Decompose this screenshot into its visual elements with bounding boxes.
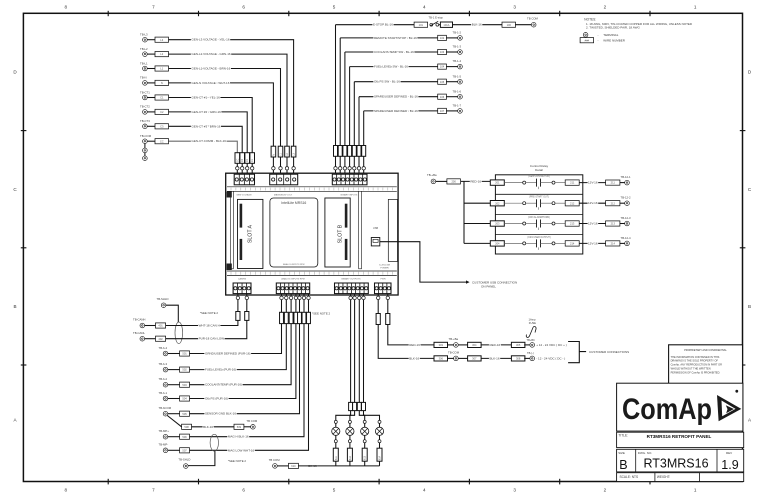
wire binary output 1 bbox=[350, 300, 352, 403]
svg-text:(CR4 USER OUTPUT): (CR4 USER OUTPUT) bbox=[527, 237, 550, 239]
wire lamp to common bus bbox=[335, 461, 337, 466]
wire number box above controller C3 bbox=[240, 153, 245, 164]
svg-text:3: 3 bbox=[513, 5, 516, 10]
terminal TB-1-2 bbox=[446, 37, 457, 39]
svg-text:B: B bbox=[619, 458, 627, 472]
wire CAN H bbox=[145, 325, 156, 327]
svg-text:12V-16: 12V-16 bbox=[588, 181, 598, 185]
svg-text:3: 3 bbox=[513, 488, 516, 493]
terminal TB-+Bat bbox=[431, 179, 436, 184]
svg-text:TB-1-5: TB-1-5 bbox=[453, 74, 462, 78]
wire number 503 bbox=[180, 382, 190, 387]
terminal TB-bCOM bbox=[163, 411, 168, 416]
svg-text:TERMINAL: TERMINAL bbox=[603, 33, 619, 37]
svg-text:107: 107 bbox=[440, 109, 445, 113]
svg-text:MAINS/BUS VOLT: MAINS/BUS VOLT bbox=[274, 193, 293, 196]
wire USB to customer connection bbox=[380, 242, 466, 282]
svg-text:DRAWING IS THE SOLE PROPERTY O: DRAWING IS THE SOLE PROPERTY OF bbox=[671, 359, 719, 363]
svg-text:12V-16: 12V-16 bbox=[588, 201, 598, 205]
wire TB-b-3 bbox=[168, 369, 180, 371]
terminal TB COM bottom bbox=[277, 465, 288, 467]
svg-text:GEN-CT #2 - GRN-16: GEN-CT #2 - GRN-16 bbox=[192, 110, 222, 114]
terminal TB-b-4 bbox=[163, 351, 168, 356]
wire number C3 bbox=[155, 124, 169, 129]
svg-text:SCALE: NTS: SCALE: NTS bbox=[620, 475, 639, 479]
shield ellipse CAN bbox=[175, 322, 183, 344]
terminal TB-SHLD bbox=[161, 303, 166, 308]
svg-text:GEN-CT COMM - BLK-16: GEN-CT COMM - BLK-16 bbox=[192, 139, 227, 143]
slot A card bbox=[238, 199, 263, 268]
terminal TB-1-5 bbox=[446, 81, 457, 83]
terminal into controller bbox=[362, 167, 365, 170]
svg-text:TB+BC: TB+BC bbox=[527, 338, 536, 342]
svg-text:203: 203 bbox=[495, 222, 500, 226]
terminal into controller bbox=[302, 296, 305, 299]
svg-text:SENSOR GND BLK-16: SENSOR GND BLK-16 bbox=[205, 412, 236, 416]
wire lamp to common bus bbox=[379, 461, 381, 466]
wire number box above controller 102 bbox=[338, 146, 342, 157]
wire binary output 2 bbox=[354, 300, 356, 403]
svg-text:101A: 101A bbox=[443, 23, 449, 27]
controller bottom terminal strip group3 bbox=[335, 283, 369, 294]
svg-text:TB-1-4: TB-1-4 bbox=[453, 59, 462, 63]
wire number 104 bbox=[438, 64, 447, 69]
svg-text:TB COM: TB COM bbox=[246, 419, 258, 423]
terminal into controller bbox=[334, 167, 337, 170]
controller bottom terminal strip group2 bbox=[276, 283, 309, 294]
svg-text:GEN-CT #1 - YEL-16: GEN-CT #1 - YEL-16 bbox=[192, 96, 221, 100]
wire number box 506 vertical bbox=[302, 312, 306, 323]
svg-text:THE INFORMATION CONTAINED IN T: THE INFORMATION CONTAINED IN THIS bbox=[671, 355, 720, 359]
svg-text:FUSE: FUSE bbox=[529, 321, 536, 325]
wire number box 302 bbox=[376, 314, 380, 325]
svg-text:1: 1 bbox=[694, 5, 697, 10]
svg-text:5: 5 bbox=[333, 488, 336, 493]
wire number box above controller N bbox=[271, 146, 276, 157]
svg-text:TB COM: TB COM bbox=[269, 458, 281, 462]
svg-text:1: 1 bbox=[694, 488, 697, 493]
terminal TB-CANH bbox=[140, 323, 145, 328]
svg-text:214: 214 bbox=[570, 242, 575, 246]
terminal TB-1-4 bbox=[446, 66, 457, 68]
svg-text:PERMISSION OF ComAp IS PROHIBI: PERMISSION OF ComAp IS PROHIBITED. bbox=[671, 370, 721, 374]
svg-text:SPARE/USER DEFINED - BL-16: SPARE/USER DEFINED - BL-16 bbox=[374, 109, 418, 113]
wire to TB COM bbox=[453, 24, 503, 26]
svg-text:5: 5 bbox=[333, 5, 336, 10]
terminal below controller bbox=[353, 296, 356, 299]
wire number 107 bbox=[438, 108, 447, 113]
wire number L3 bbox=[155, 37, 169, 42]
wire number 103 bbox=[438, 49, 447, 54]
svg-text:-: - bbox=[598, 38, 599, 42]
svg-text:POWER: POWER bbox=[380, 268, 389, 270]
wire negative row bbox=[409, 357, 434, 359]
svg-text:214: 214 bbox=[611, 242, 616, 246]
svg-text:305: 305 bbox=[516, 343, 521, 347]
terminal TB-1-3 bbox=[446, 51, 457, 53]
svg-text:TB-1 E-stop: TB-1 E-stop bbox=[429, 16, 444, 20]
svg-text:8: 8 bbox=[65, 488, 68, 493]
ground chain terminals below TB-COM bbox=[144, 144, 146, 157]
svg-text:BLK-16: BLK-16 bbox=[490, 356, 500, 360]
svg-text:FUEL LEVEL SW - BL-16: FUEL LEVEL SW - BL-16 bbox=[374, 65, 408, 69]
terminal TB-L1 bbox=[143, 66, 148, 71]
terminal into controller for TB-L3 bbox=[292, 167, 295, 170]
wire number 509 bbox=[234, 424, 244, 429]
wire TB-b-4 bbox=[168, 353, 180, 355]
wire number 211A bbox=[606, 180, 620, 185]
svg-text:2. TWISTED, SHIELDED PAIR, 18: 2. TWISTED, SHIELDED PAIR, 18 AWG bbox=[586, 26, 640, 30]
wire TB-b-2 bbox=[168, 384, 180, 386]
ComAp logo box bbox=[617, 383, 743, 431]
svg-text:200: 200 bbox=[451, 180, 456, 184]
wire number 101 bbox=[414, 22, 428, 27]
wire number box lamp 1 bbox=[333, 448, 338, 461]
terminal DC- customer bbox=[524, 357, 530, 359]
terminal into controller bbox=[289, 296, 292, 299]
wire number box 602 bbox=[353, 402, 357, 410]
svg-text:TB-1-2: TB-1-2 bbox=[453, 31, 462, 35]
wire number box 604 bbox=[362, 402, 366, 410]
wire TB-COM to controller bbox=[147, 140, 155, 142]
E-stop switch TB-1 bbox=[429, 16, 444, 27]
wire TB-+Bat to relay box bbox=[436, 180, 447, 182]
wire number 213A bbox=[606, 221, 620, 226]
terminal TB-b-2 bbox=[163, 382, 168, 387]
wire number CC bbox=[155, 139, 169, 144]
svg-text:505: 505 bbox=[182, 412, 187, 416]
terminal TB-MP+ bbox=[163, 434, 168, 439]
svg-text:TB-CT3: TB-CT3 bbox=[140, 119, 150, 123]
relay CR3 bbox=[490, 221, 504, 226]
wire number box 503 vertical bbox=[289, 312, 293, 323]
terminal TB-N bbox=[143, 81, 148, 86]
svg-text:OIL PS SW - BL-16: OIL PS SW - BL-16 bbox=[374, 80, 400, 84]
svg-text:611: 611 bbox=[335, 456, 338, 460]
terminal TB-12-1 bbox=[620, 182, 625, 184]
svg-text:213: 213 bbox=[570, 222, 575, 226]
controller outline U1 bbox=[226, 173, 398, 295]
terminal TB-CT2 bbox=[143, 110, 148, 115]
wire CAN L bbox=[145, 338, 156, 340]
svg-text:508: 508 bbox=[184, 425, 189, 429]
wire number box above controller 107 bbox=[362, 146, 366, 157]
wire number C2 bbox=[155, 109, 169, 114]
terminal TB-CT3 bbox=[143, 124, 148, 129]
terminal into controller for TB-CT2 bbox=[246, 167, 249, 170]
svg-text:GRND/USER DEFINED (PUR-16): GRND/USER DEFINED (PUR-16) bbox=[205, 352, 251, 356]
svg-text:BLK-16: BLK-16 bbox=[409, 356, 419, 360]
terminal into controller bbox=[348, 167, 351, 170]
wire number box 603 bbox=[357, 402, 361, 410]
wire relay CR2 output bbox=[579, 202, 605, 204]
svg-text:*SEE NOTE 2: *SEE NOTE 2 bbox=[200, 311, 219, 315]
svg-text:ANALOG INPUTS RPM: ANALOG INPUTS RPM bbox=[281, 278, 304, 281]
svg-text:SIZE: SIZE bbox=[618, 451, 625, 455]
terminal TB-1-6 bbox=[446, 96, 457, 98]
wire TB-L2 to controller bbox=[147, 53, 155, 55]
terminal TB-12-4 bbox=[620, 242, 625, 244]
svg-text:BLK-16: BLK-16 bbox=[472, 23, 482, 27]
wire number 212A bbox=[606, 201, 620, 206]
wire relay CR4 output bbox=[579, 242, 605, 244]
svg-text:TB-+Ba: TB-+Ba bbox=[427, 173, 437, 177]
wire number box 402 vertical bbox=[245, 312, 249, 321]
svg-text:307: 307 bbox=[472, 357, 477, 361]
wire number box above controller 104 bbox=[348, 146, 352, 157]
svg-text:ANALOG INPUTS RPM: ANALOG INPUTS RPM bbox=[283, 263, 305, 266]
svg-text:2: 2 bbox=[604, 488, 607, 493]
svg-text:TB-COM: TB-COM bbox=[448, 351, 460, 355]
svg-text:BINARY INPUTS: BINARY INPUTS bbox=[341, 193, 358, 196]
right module area bbox=[388, 199, 397, 261]
wire lamp to common bus bbox=[349, 461, 351, 466]
wire number box 601 bbox=[349, 402, 353, 410]
svg-text:201: 201 bbox=[495, 181, 500, 185]
svg-text:N: N bbox=[161, 81, 163, 85]
svg-text:B: B bbox=[13, 304, 16, 309]
legend wire number symbol bbox=[580, 38, 594, 43]
wire number box lamp 4 bbox=[377, 448, 382, 461]
wire number box 401 vertical bbox=[236, 312, 240, 321]
terminal TB-L3 bbox=[143, 37, 148, 42]
DIN tab lower bbox=[227, 264, 232, 271]
svg-text:WIRE NUMBER: WIRE NUMBER bbox=[603, 38, 626, 42]
terminal TB-12-3 bbox=[620, 223, 625, 225]
svg-text:212: 212 bbox=[570, 201, 575, 205]
terminal below controller bbox=[362, 296, 365, 299]
svg-text:ON PANEL: ON PANEL bbox=[481, 284, 496, 288]
svg-text:RED-16: RED-16 bbox=[470, 179, 481, 183]
terminal into controller for TB-L2 bbox=[285, 167, 288, 170]
wire binary input TB-1-2 bbox=[340, 37, 438, 39]
svg-text:###: ### bbox=[585, 38, 590, 42]
svg-text:8: 8 bbox=[65, 5, 68, 10]
svg-text:COOLANT TEMP (PUR-16): COOLANT TEMP (PUR-16) bbox=[205, 383, 242, 387]
wire number C1 bbox=[155, 95, 169, 100]
wire number box above controller 101 bbox=[334, 146, 338, 157]
terminal TB-L2 bbox=[143, 52, 148, 57]
wire TB-b-1 bbox=[168, 398, 180, 400]
svg-text:213: 213 bbox=[611, 222, 616, 226]
wire bbox=[272, 157, 274, 166]
svg-text:GEN-CT #3 - BRN-16: GEN-CT #3 - BRN-16 bbox=[192, 124, 221, 128]
wire power positive from controller bbox=[387, 294, 389, 297]
svg-text:PUR-18 CAN LOW: PUR-18 CAN LOW bbox=[199, 337, 225, 341]
wire number 200 bbox=[447, 179, 461, 184]
wire number box above controller L3 bbox=[291, 146, 296, 157]
lamp LP4 bbox=[378, 420, 381, 423]
svg-text:308: 308 bbox=[516, 357, 521, 361]
terminal TB COM mid bbox=[244, 426, 251, 428]
svg-text:GEN-L1 VOLTAGE - BRN-16: GEN-L1 VOLTAGE - BRN-16 bbox=[192, 67, 231, 71]
svg-text:6: 6 bbox=[242, 488, 245, 493]
wire TB-CT1 to controller bbox=[147, 97, 155, 99]
wire MAG shield drain bbox=[188, 451, 215, 466]
wire number box above controller L1 bbox=[278, 146, 283, 157]
svg-text:TB-CT2: TB-CT2 bbox=[140, 105, 150, 109]
wire number box above controller C1 bbox=[250, 153, 255, 164]
svg-text:DWG. NO.: DWG. NO. bbox=[638, 451, 652, 455]
svg-text:100: 100 bbox=[507, 23, 512, 27]
svg-text:RT3MRS16: RT3MRS16 bbox=[643, 457, 708, 471]
svg-text:RT3MRS16 RETROFIT PANEL: RT3MRS16 RETROFIT PANEL bbox=[647, 434, 712, 439]
svg-text:(CR3 ALARM/HORN): (CR3 ALARM/HORN) bbox=[528, 216, 550, 219]
svg-text:*SEE NOTE 2: *SEE NOTE 2 bbox=[228, 459, 247, 463]
wire number 402 bbox=[156, 336, 166, 341]
svg-text:GEN-L2 VOLTAGE - GRN-16: GEN-L2 VOLTAGE - GRN-16 bbox=[192, 52, 231, 56]
terminal into controller bbox=[339, 167, 342, 170]
svg-text:TB-12-2: TB-12-2 bbox=[621, 196, 632, 200]
terminal into controller bbox=[298, 296, 301, 299]
svg-text:TB-12-1: TB-12-1 bbox=[621, 175, 632, 179]
svg-text:-: - bbox=[598, 33, 599, 37]
legend terminal symbol bbox=[583, 33, 588, 38]
svg-text:502: 502 bbox=[182, 368, 187, 372]
wire TB-bCOM bbox=[168, 413, 180, 415]
svg-text:C1: C1 bbox=[160, 96, 164, 100]
svg-text:306: 306 bbox=[439, 357, 444, 361]
svg-text:TB-SHLD: TB-SHLD bbox=[178, 458, 190, 462]
svg-text:C1: C1 bbox=[251, 158, 254, 162]
wire TB-L3 to controller bbox=[147, 39, 155, 41]
wire number box above controller CC bbox=[235, 153, 240, 164]
controller top terminal strip group2 bbox=[270, 174, 298, 185]
wire number box 501 vertical bbox=[280, 312, 284, 323]
svg-text:PROPRIETARY AND CONFIDENTIAL: PROPRIETARY AND CONFIDENTIAL bbox=[684, 349, 727, 352]
wire bbox=[439, 24, 441, 26]
terminal CAN H into controller bbox=[237, 300, 239, 312]
svg-text:TB-MP+: TB-MP+ bbox=[159, 429, 170, 433]
svg-text:FUEL LEVEL (PUR-16): FUEL LEVEL (PUR-16) bbox=[205, 368, 236, 372]
svg-text:C2: C2 bbox=[160, 110, 164, 114]
svg-text:TB-b-2: TB-b-2 bbox=[159, 377, 168, 381]
terminal into controller bbox=[353, 167, 356, 170]
svg-text:PWR: PWR bbox=[380, 279, 386, 281]
svg-text:6: 6 bbox=[242, 5, 245, 10]
terminal TB-MP- bbox=[163, 448, 168, 453]
svg-text:TB-+Ba: TB-+Ba bbox=[449, 337, 459, 341]
svg-text:202: 202 bbox=[495, 201, 500, 205]
terminal into controller for TB-L1 bbox=[279, 167, 282, 170]
wire shield drain bbox=[166, 305, 178, 322]
terminal TB-COM power bbox=[448, 357, 454, 359]
wire TB-L1 to controller bbox=[147, 68, 155, 70]
wire number box 505 vertical bbox=[298, 312, 302, 323]
wire number N bbox=[155, 80, 169, 85]
svg-text:GEN-L3 VOLTAGE - YEL-16: GEN-L3 VOLTAGE - YEL-16 bbox=[192, 38, 230, 42]
svg-text:WEIGHT:: WEIGHT: bbox=[657, 475, 670, 479]
wire bbox=[236, 163, 238, 166]
svg-text:TB-(-): TB-(-) bbox=[527, 351, 534, 355]
ComAp logo triangle bbox=[717, 390, 741, 421]
wire binary input TB-1-5 bbox=[354, 81, 437, 83]
terminal TB-CT1 bbox=[143, 95, 148, 100]
svg-text:*SEE NOTE 2: *SEE NOTE 2 bbox=[312, 312, 331, 316]
terminal into controller bbox=[357, 167, 360, 170]
svg-text:12V-16: 12V-16 bbox=[588, 222, 598, 226]
svg-text:BINARY OUTPUTS: BINARY OUTPUTS bbox=[341, 278, 361, 281]
terminal number ticks top bbox=[230, 188, 232, 191]
svg-text:CC: CC bbox=[236, 158, 239, 162]
wire TB-CT3 to controller bbox=[147, 125, 155, 127]
svg-text:TB-12-3: TB-12-3 bbox=[621, 216, 632, 220]
wire bbox=[251, 163, 253, 166]
controller top terminal strip group1 bbox=[234, 174, 254, 185]
relay ladder bus bbox=[463, 181, 465, 243]
wire relay CR1 output bbox=[579, 182, 605, 184]
svg-text:TB-b-3: TB-b-3 bbox=[159, 362, 168, 366]
wire number 507 bbox=[180, 448, 190, 453]
wire number 504 bbox=[180, 396, 190, 401]
wire number box above controller C2 bbox=[245, 153, 250, 164]
wire binary input TB-1-7 bbox=[364, 110, 438, 112]
wire binary input TB-1-4 bbox=[350, 66, 438, 68]
wire number box 502 vertical bbox=[284, 312, 288, 323]
svg-text:GEN-N VOLTAGE - WHT-16: GEN-N VOLTAGE - WHT-16 bbox=[192, 81, 230, 85]
svg-text:103: 103 bbox=[440, 50, 445, 54]
svg-text:(GEN CONTACTOR): (GEN CONTACTOR) bbox=[528, 175, 550, 178]
wire binary output 3 bbox=[358, 300, 360, 403]
svg-text:COOLANT TEMP SW - BL-16: COOLANT TEMP SW - BL-16 bbox=[374, 50, 414, 54]
svg-text:TB-L2: TB-L2 bbox=[140, 47, 148, 51]
svg-text:TB-1-7: TB-1-7 bbox=[453, 104, 462, 108]
terminal TB-12-2 bbox=[620, 202, 625, 204]
wire number 307 bbox=[468, 356, 482, 361]
svg-text:CC: CC bbox=[160, 139, 164, 143]
svg-text:OIL PS (PUR-16): OIL PS (PUR-16) bbox=[205, 397, 228, 401]
wire number 304 bbox=[468, 342, 482, 347]
svg-text:ComAp: ComAp bbox=[622, 393, 712, 426]
svg-text:101: 101 bbox=[419, 23, 424, 27]
svg-text:TB-1-6: TB-1-6 bbox=[453, 89, 462, 93]
svg-text:212: 212 bbox=[611, 201, 616, 205]
terminal below controller bbox=[349, 296, 352, 299]
wire number 308 bbox=[511, 356, 525, 361]
wire bbox=[458, 357, 467, 359]
wire E-stop row bbox=[336, 24, 415, 26]
svg-text:MAG H BLK-16: MAG H BLK-16 bbox=[228, 435, 249, 439]
svg-text:204: 204 bbox=[495, 242, 500, 246]
terminal TB-b-3 bbox=[163, 367, 168, 372]
wire binary input TB-1-3 bbox=[345, 51, 438, 53]
svg-text:211: 211 bbox=[570, 181, 575, 185]
wire number 105 bbox=[438, 79, 447, 84]
wire TB-CT2 to controller bbox=[147, 111, 155, 113]
svg-text:N: N bbox=[272, 154, 275, 156]
relay detail box bbox=[495, 175, 582, 254]
wire number 508 bbox=[182, 424, 192, 429]
svg-text:106: 106 bbox=[440, 95, 445, 99]
card guide right bbox=[359, 191, 362, 268]
terminal TB-SHLD bottom bbox=[184, 464, 189, 469]
wire number box above controller 106 bbox=[357, 146, 361, 157]
wire TB-MP+ bbox=[168, 436, 180, 438]
svg-text:4: 4 bbox=[423, 488, 426, 493]
wire number 102 bbox=[438, 35, 447, 40]
svg-text:105: 105 bbox=[440, 80, 445, 84]
svg-text:TB-L3: TB-L3 bbox=[140, 33, 148, 37]
controller bottom terminal strip group4 bbox=[375, 283, 392, 294]
terminal into controller for TB-COM bbox=[236, 167, 239, 170]
svg-text:1.9: 1.9 bbox=[721, 458, 738, 472]
wire number box above controller L2 bbox=[285, 146, 290, 157]
shield ellipse MAG bbox=[210, 434, 218, 451]
svg-text:GEN VOLTAGE: GEN VOLTAGE bbox=[236, 193, 252, 196]
wire number 214A bbox=[606, 241, 620, 246]
svg-text:TB-N: TB-N bbox=[140, 76, 147, 80]
svg-text:TB-b-4: TB-b-4 bbox=[159, 346, 168, 350]
